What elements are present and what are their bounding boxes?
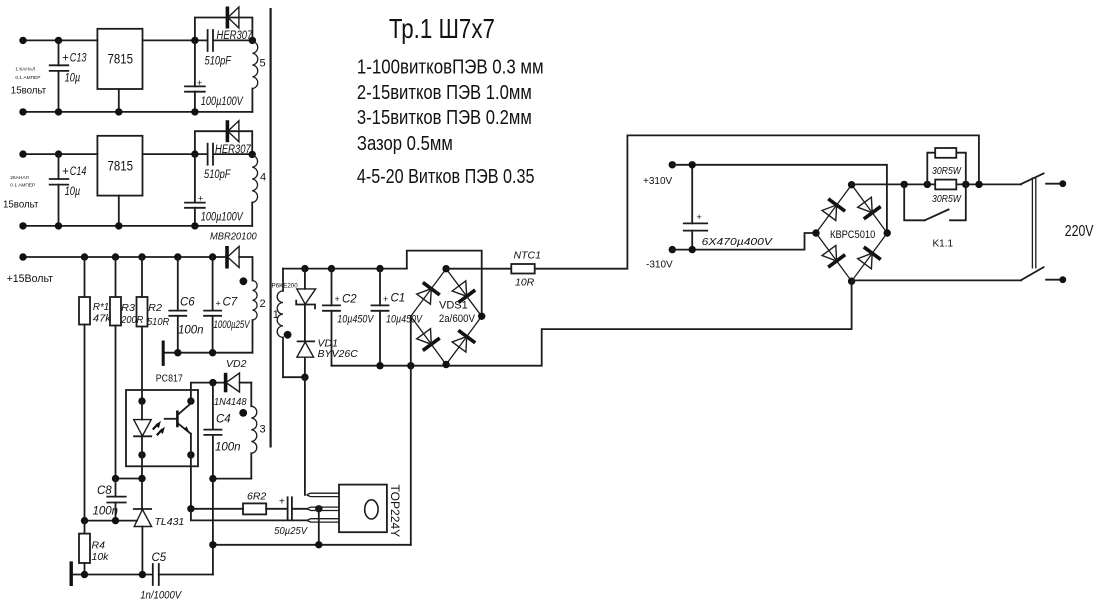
node opto collector — [187, 397, 194, 404]
node C2 top — [328, 265, 335, 272]
switch 220V top pole — [1021, 173, 1066, 187]
svg-text:+: + — [335, 294, 340, 304]
wire ch2 snubber branch — [195, 131, 252, 154]
node R3 top — [112, 253, 119, 260]
svg-text:+: + — [697, 212, 702, 222]
svg-text:+: + — [62, 53, 69, 65]
node VDS1 right vertex — [478, 313, 485, 320]
node ch1 reg output — [191, 37, 198, 44]
wire bottom gnd line — [72, 574, 152, 576]
node C7 top — [209, 253, 216, 260]
svg-text:+: + — [197, 78, 202, 88]
svg-text:P6KE200: P6KE200 — [272, 283, 299, 290]
wire emitter bottom branch — [191, 509, 307, 521]
node KBPC right vertex — [884, 229, 891, 236]
node R1 R4 junction — [81, 517, 88, 524]
node 100u100V ch2 bottom — [191, 222, 198, 229]
resistor R2 510R — [137, 257, 170, 328]
svg-text:HER307: HER307 — [217, 30, 253, 42]
wire KBPC bottom vertex riser — [851, 281, 853, 329]
node VDS1 top vertex — [442, 265, 449, 272]
capacitor 100u100V ch1 — [185, 40, 244, 112]
node led cathode bottom — [138, 475, 145, 482]
resistor R4 10k — [79, 521, 109, 575]
wire collector riser — [191, 383, 226, 402]
diode HER307 ch1 — [217, 7, 253, 43]
node C6 top — [174, 253, 181, 260]
ic TOP224Y circle — [365, 500, 378, 519]
node ch1 input terminal — [19, 37, 26, 44]
diode VD1 BYV26C — [297, 337, 358, 360]
svg-text:220V: 220V — [1065, 223, 1094, 240]
svg-text:+310V: +310V — [643, 176, 673, 187]
node bulk cap top — [689, 161, 696, 168]
node bulk cap bottom — [689, 246, 696, 253]
node +15V terminal — [19, 253, 26, 260]
diode MBR20100 — [227, 246, 239, 269]
svg-text:VD2: VD2 — [226, 358, 247, 370]
diode HER307 ch2 — [215, 120, 251, 156]
wire R1 bottom long — [84, 325, 86, 521]
svg-text:10µ: 10µ — [65, 73, 81, 85]
wire 6R2 to cap — [266, 508, 287, 510]
node R4 bottom — [81, 571, 88, 578]
node C1 bottom — [376, 362, 383, 369]
node ch2 bottom terminal — [19, 222, 26, 229]
bridge VDS1 — [411, 269, 482, 365]
svg-text:50µ25V: 50µ25V — [274, 525, 308, 537]
wire primary bottom — [283, 376, 305, 378]
capacitor 100u100V ch2 — [185, 154, 244, 226]
node C13 bottom — [55, 108, 62, 115]
wire led cathode drop — [141, 455, 143, 479]
svg-text:30R5W: 30R5W — [932, 193, 962, 205]
resistor 6R2 — [243, 491, 266, 515]
svg-text:2: 2 — [260, 298, 266, 310]
svg-text:100n: 100n — [178, 325, 204, 337]
node winding5 top — [249, 37, 256, 44]
node source join — [407, 362, 414, 369]
svg-text:C8: C8 — [97, 485, 112, 497]
svg-text:2a/600V: 2a/600V — [439, 313, 476, 325]
node R3 cathode junction — [112, 475, 119, 482]
wire 7815 ch1 gnd — [118, 89, 120, 112]
node R1 top — [81, 253, 88, 260]
wire gnd rail mid — [165, 352, 253, 354]
tvs P6KE200 — [296, 289, 315, 309]
node KBPC bottom vertex — [848, 278, 855, 285]
svg-text:+: + — [62, 166, 69, 178]
svg-text:C13: C13 — [70, 53, 87, 65]
wire ch2 bottom rail — [23, 225, 252, 227]
svg-text:5: 5 — [260, 58, 266, 70]
node C4 bottom — [209, 475, 216, 482]
svg-text:1n/1000V: 1n/1000V — [140, 590, 182, 602]
node 7815 ch1 gnd — [115, 108, 122, 115]
svg-text:TOP224Y: TOP224Y — [388, 485, 400, 538]
wire dc bus bypass over — [407, 251, 482, 317]
pin control lead — [307, 507, 339, 510]
wire +15V rail — [23, 256, 227, 258]
node C6 bottom — [174, 349, 181, 356]
svg-text:4-5-20 Витков ПЭВ 0.35: 4-5-20 Витков ПЭВ 0.35 — [357, 165, 535, 188]
svg-text:0 1 АМПЕР: 0 1 АМПЕР — [10, 183, 35, 189]
svg-text:2-15витков ПЭВ 1.0мм: 2-15витков ПЭВ 1.0мм — [357, 81, 532, 104]
svg-text:10µ: 10µ — [65, 186, 81, 198]
node C8 bottom — [112, 517, 119, 524]
node primary bottom — [301, 374, 308, 381]
svg-text:1-100витковПЭВ 0.3 мм: 1-100витковПЭВ 0.3 мм — [357, 56, 544, 79]
svg-text:100n: 100n — [215, 442, 241, 454]
capacitor 510pF ch2 — [204, 144, 231, 182]
wire primary top rail — [283, 268, 407, 270]
svg-text:1: 1 — [273, 309, 279, 321]
svg-text:47k: 47k — [93, 313, 112, 325]
svg-text:КВРС5010: КВРС5010 — [830, 229, 875, 241]
node C7 bottom — [209, 349, 216, 356]
node 7815 ch2 gnd — [115, 222, 122, 229]
pin source lead — [307, 519, 339, 522]
svg-text:0.1 АМПЕР: 0.1 АМПЕР — [15, 75, 40, 81]
wire cap to control pin — [292, 508, 308, 510]
node C14 bottom — [55, 222, 62, 229]
node par res left — [924, 181, 931, 188]
wire R2 bottom to opto — [141, 327, 143, 402]
resistor 30R5W series — [932, 180, 962, 205]
svg-text:10µ450V: 10µ450V — [386, 314, 423, 326]
winding 3 — [251, 383, 265, 479]
wire C4 node drop — [212, 479, 214, 575]
svg-text:+: + — [383, 294, 388, 304]
svg-text:10R: 10R — [515, 277, 535, 289]
wire mains live rail — [446, 135, 979, 268]
wire control line left — [191, 508, 243, 510]
node C13 top — [55, 37, 62, 44]
capacitor C14 — [50, 154, 87, 226]
wire left vertex drop — [410, 316, 412, 365]
capacitor C2 10u450V — [323, 269, 375, 366]
svg-text:10k: 10k — [92, 551, 110, 563]
wire ch2 top rail left — [23, 153, 97, 155]
svg-text:4: 4 — [260, 172, 266, 184]
node opto led cathode — [138, 451, 145, 458]
wire 7815 ch2 gnd — [118, 196, 120, 226]
wire tl431 cathode riser — [141, 479, 143, 510]
svg-text:7815: 7815 — [108, 158, 134, 174]
wire dc minus rail — [332, 329, 852, 366]
svg-text:7815: 7815 — [108, 51, 134, 67]
opto phototransistor — [165, 401, 191, 455]
svg-text:2КАНАЛ: 2КАНАЛ — [10, 175, 29, 181]
svg-text:BYV26C: BYV26C — [318, 348, 359, 360]
regulator 7815 ch2 — [97, 136, 142, 196]
switch 220V bottom pole — [1021, 267, 1066, 283]
wire +310V rail — [672, 165, 887, 233]
transformer core — [270, 8, 272, 448]
svg-text:Зазор 0.5мм: Зазор 0.5мм — [357, 132, 453, 155]
svg-text:R4: R4 — [92, 540, 106, 552]
regulator 7815 ch1 — [97, 29, 142, 89]
wire ch2 top rail right — [143, 153, 208, 155]
svg-text:1N4148: 1N4148 — [214, 396, 247, 408]
bridge KBPC5010 — [816, 185, 887, 282]
svg-text:C4: C4 — [216, 414, 231, 426]
wire drain drop — [304, 377, 306, 495]
shunt TL431 — [134, 509, 184, 575]
svg-text:C1: C1 — [391, 293, 406, 305]
capacitor C13 — [50, 40, 87, 112]
svg-text:200R: 200R — [120, 314, 143, 326]
capacitor 50u25V — [274, 497, 308, 538]
svg-text:510pF: 510pF — [205, 56, 232, 68]
svg-text:+15Вольт: +15Вольт — [7, 273, 53, 285]
capacitor C8 100n — [93, 479, 126, 521]
capacitor C7 1000u25V — [204, 257, 251, 353]
node source rail left — [209, 541, 216, 548]
capacitor C1 10u450V — [372, 269, 424, 366]
wire vd2 rail right — [240, 382, 252, 384]
wire cathode to R3 — [116, 478, 143, 480]
wire -310V rail — [672, 233, 816, 250]
node C1 top — [376, 265, 383, 272]
node R2 top — [138, 253, 145, 260]
svg-text:100n: 100n — [93, 506, 119, 518]
wire feedback bottom rail — [213, 478, 251, 480]
svg-text:+: + — [279, 497, 285, 508]
winding 2 — [253, 281, 266, 353]
svg-text:C6: C6 — [180, 297, 195, 309]
svg-text:R2: R2 — [148, 302, 162, 314]
capacitor C4 100n — [204, 383, 240, 479]
svg-text:C14: C14 — [70, 166, 87, 178]
capacitor 510pF ch1 — [205, 30, 232, 68]
svg-text:15вольт: 15вольт — [3, 199, 39, 211]
switch actuator link — [1032, 177, 1035, 268]
svg-text:6R2: 6R2 — [247, 491, 266, 503]
svg-text:C7: C7 — [223, 297, 238, 309]
wire mains neutral rail — [852, 279, 1022, 281]
node winding1 phase dot — [284, 331, 292, 339]
capacitor 6X470u400V — [684, 165, 773, 250]
node emitter control junction — [187, 505, 194, 512]
svg-text:6X470µ400V: 6X470µ400V — [702, 236, 773, 248]
wire control to source — [318, 509, 320, 545]
svg-text:+: + — [198, 194, 203, 204]
svg-text:R*1: R*1 — [93, 301, 109, 313]
node -310V terminal — [669, 246, 676, 253]
node ch2 reg output — [191, 150, 198, 157]
svg-text:10µ450V: 10µ450V — [337, 314, 374, 326]
svg-text:TL431: TL431 — [155, 516, 185, 528]
pin drain lead — [307, 493, 340, 496]
wire ch1 bottom rail — [23, 111, 252, 113]
capacitor C5 1n1000V — [140, 552, 213, 602]
ic TOP224Y box — [339, 485, 387, 533]
svg-text:R3: R3 — [121, 302, 135, 314]
wire ch1 top rail to winding — [213, 39, 252, 41]
svg-text:VDS1: VDS1 — [439, 299, 468, 311]
node C4 top — [209, 379, 216, 386]
svg-text:30R5W: 30R5W — [932, 165, 962, 177]
opto light arrows — [153, 421, 165, 436]
wire ch2 top rail to winding — [213, 153, 252, 155]
node +310V terminal — [669, 161, 676, 168]
relay contact K1.1 — [904, 184, 966, 249]
capacitor C6 100n — [169, 257, 203, 353]
node opto led anode — [138, 397, 145, 404]
wire relay resistor rail — [852, 183, 1022, 185]
node source rail right — [315, 541, 322, 548]
resistor R*1 47k — [79, 257, 112, 325]
node TL431 anode — [139, 571, 146, 578]
wire ch1 top rail left — [23, 39, 97, 41]
node clamp top — [301, 265, 308, 272]
svg-text:C2: C2 — [342, 294, 357, 306]
resistor R3 200R — [110, 257, 144, 326]
svg-text:PC817: PC817 — [156, 373, 183, 385]
ground bottom left — [69, 561, 72, 586]
wire rail to winding2 — [239, 257, 252, 281]
svg-text:MBR20100: MBR20100 — [210, 230, 257, 242]
node KBPC top vertex — [848, 181, 855, 188]
winding 1 — [273, 269, 283, 378]
svg-text:HER307: HER307 — [215, 144, 251, 156]
node par res right — [962, 181, 969, 188]
node ch2 input terminal — [19, 150, 26, 157]
svg-text:C5: C5 — [152, 552, 167, 564]
svg-text:-310V: -310V — [646, 260, 673, 271]
wire source rail — [213, 544, 411, 546]
wire ch1 snubber branch — [195, 18, 253, 41]
diode VD2 1N4148 — [214, 358, 247, 408]
svg-text:1 КАНАЛ: 1 КАНАЛ — [15, 67, 35, 73]
node VDS1 bottom vertex — [442, 361, 449, 368]
svg-text:100µ100V: 100µ100V — [201, 96, 244, 108]
node control pin junction — [315, 505, 322, 512]
svg-text:510pF: 510pF — [204, 169, 231, 181]
wire ch1 top rail right — [143, 39, 208, 41]
svg-text:1000µ25V: 1000µ25V — [214, 319, 251, 331]
node live loop join — [975, 181, 982, 188]
svg-text:NTC1: NTC1 — [514, 250, 541, 262]
resistor NTC1 10R — [511, 250, 541, 289]
wire clamp branch — [304, 269, 306, 378]
svg-text:3: 3 — [260, 424, 266, 436]
winding 5 — [252, 40, 265, 112]
svg-text:+: + — [216, 299, 221, 309]
node K1 left — [901, 181, 908, 188]
node C14 top — [55, 150, 62, 157]
node winding3 phase dot — [239, 409, 247, 417]
opto led — [134, 401, 152, 455]
node opto emitter — [187, 451, 194, 458]
node ch1 bottom terminal — [19, 108, 26, 115]
ground mid — [162, 341, 165, 366]
node winding4 top — [249, 151, 256, 158]
winding 4 — [252, 154, 266, 226]
wire emitter drop — [190, 455, 192, 509]
optocoupler PC817 box — [126, 390, 198, 466]
svg-text:15вольт: 15вольт — [11, 85, 47, 97]
svg-text:510R: 510R — [147, 316, 170, 328]
wire source rail riser — [410, 366, 412, 545]
svg-text:K1.1: K1.1 — [933, 239, 954, 250]
wire R3 bottom long — [115, 326, 117, 479]
svg-text:Тр.1 Ш7х7: Тр.1 Ш7х7 — [389, 13, 495, 44]
svg-text:3-15витков ПЭВ 0.2мм: 3-15витков ПЭВ 0.2мм — [357, 106, 532, 129]
node winding2 phase dot — [240, 277, 248, 285]
svg-text:100µ100V: 100µ100V — [201, 212, 244, 224]
wire ref line — [85, 520, 138, 522]
resistor 30R5W parallel — [927, 148, 966, 184]
node 100u100V ch1 bottom — [191, 108, 198, 115]
node KBPC left vertex — [812, 229, 819, 236]
